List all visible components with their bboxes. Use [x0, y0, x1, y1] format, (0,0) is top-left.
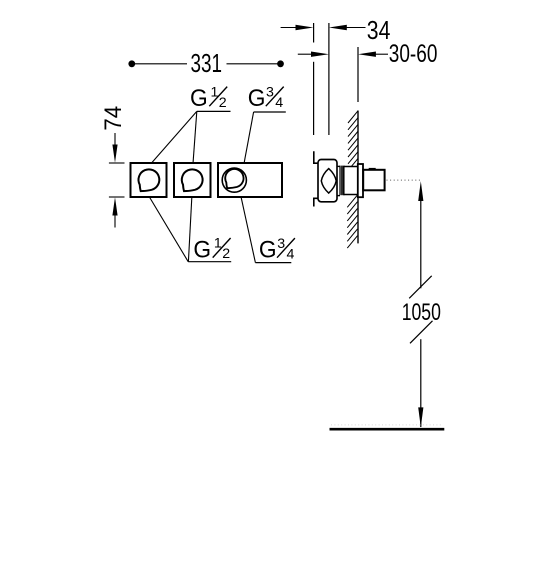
dimension 30-60 tail line left: [298, 53, 312, 55]
dimension 30-60 left arrow (points right): [311, 52, 329, 57]
wall hatching lower: [347, 195, 357, 248]
svg-text:74: 74: [100, 106, 127, 131]
valve neck top edge: [337, 165, 340, 167]
valve bottom mounting tab: [314, 198, 319, 206]
svg-text:4: 4: [287, 246, 295, 262]
wall line lower: [357, 197, 359, 243]
box 3 inner bubble: [225, 169, 243, 188]
dimension 74 upper arrow (down): [112, 145, 117, 163]
svg-text:2: 2: [219, 95, 227, 111]
extension line 3 (wall face): [357, 47, 359, 102]
dimension 74 lower arrow (up): [112, 197, 117, 215]
dimension 331 line right segment: [227, 63, 279, 65]
dimension 331 left dot: [128, 60, 135, 67]
wall hatching upper: [348, 111, 358, 167]
dotted reference line from cap: [387, 179, 421, 181]
svg-text:G: G: [193, 236, 211, 263]
valve top mounting tab: [314, 151, 319, 163]
label G 3/4 top: fraction slash: [266, 87, 284, 107]
box 3 outer circle: [222, 168, 246, 192]
label G 1/2 bottom underline: [188, 261, 231, 263]
dimension 74 top tick: [109, 162, 125, 164]
leader from box 2 to G1/2 bottom: [188, 198, 191, 262]
dimension 34 right arrow (points left): [329, 25, 347, 30]
svg-text:1050: 1050: [402, 299, 441, 326]
dimension 34 left arrow (points right): [296, 25, 314, 30]
box 1 handle bubble: [139, 169, 160, 191]
wall line upper: [357, 111, 359, 164]
extension line 2 (min wall plane): [328, 23, 330, 135]
svg-text:G: G: [190, 85, 208, 112]
label G 1/2 top underline: [197, 110, 231, 112]
dimension 1050 line lower: [420, 339, 422, 427]
svg-text:30-60: 30-60: [389, 40, 438, 68]
valve cap: [363, 170, 384, 191]
dimension 1050 break mark lower: [410, 321, 433, 344]
extension line 1 (back plane) lower segment: [313, 62, 315, 135]
valve body lens detail: [321, 169, 336, 194]
dimension 1050 break mark upper: [409, 276, 432, 299]
leader from G1/2 top to box 2: [193, 111, 197, 163]
dimension 30-60 right arrow (points left): [358, 52, 376, 57]
box 2 (square valve module): [174, 163, 211, 197]
leader from box 3 to G3/4 bottom: [241, 198, 255, 263]
svg-text:4: 4: [275, 95, 283, 111]
valve neck bottom edge: [337, 195, 340, 197]
dimension 74 upper line: [114, 133, 116, 147]
box 1 (square valve module): [131, 163, 167, 197]
svg-text:G: G: [248, 85, 266, 112]
dimension 1050 line upper: [420, 199, 422, 288]
floor line: [330, 428, 445, 431]
label G 3/4 bottom: fraction slash: [277, 238, 295, 258]
dimension 331 line left segment: [134, 63, 187, 65]
box 2 handle bubble: [182, 169, 203, 191]
label G 1/2 top: fraction slash: [209, 87, 227, 107]
svg-text:G: G: [259, 237, 277, 264]
leader from G3/4 top to box 3: [244, 112, 254, 164]
valve gasket stack: [340, 166, 344, 196]
svg-text:34: 34: [367, 17, 391, 45]
extension line 1 (back plane) upper segment: [313, 23, 315, 43]
dimension 1050 bottom arrow (down): [418, 407, 423, 427]
valve body (side view): [318, 160, 337, 202]
dimension 34 tail line right: [346, 27, 366, 29]
dimension 74 lower line: [114, 213, 116, 228]
valve cylinder through wall: [344, 167, 358, 195]
dimension 30-60 tail line right: [375, 53, 388, 55]
floor dotted line: [331, 424, 443, 426]
dimension 34 tail line left: [281, 27, 297, 29]
valve wall flange: [358, 164, 363, 197]
svg-text:331: 331: [191, 50, 223, 78]
leader from G1/2 top to box 1: [151, 111, 197, 163]
label G 3/4 bottom underline: [255, 262, 291, 264]
label G 1/2 bottom: fraction slash: [213, 238, 231, 258]
dimension 331 right dot: [277, 60, 284, 67]
svg-text:2: 2: [222, 246, 230, 262]
valve cap bump: [369, 168, 376, 171]
leader from box 1 to G1/2 bottom: [150, 198, 188, 262]
label G 3/4 top underline: [254, 111, 286, 113]
dimension 1050 top arrow (up): [418, 181, 423, 201]
box 3 (wide spout module): [218, 163, 282, 197]
dimension 74 bottom tick: [109, 196, 125, 198]
